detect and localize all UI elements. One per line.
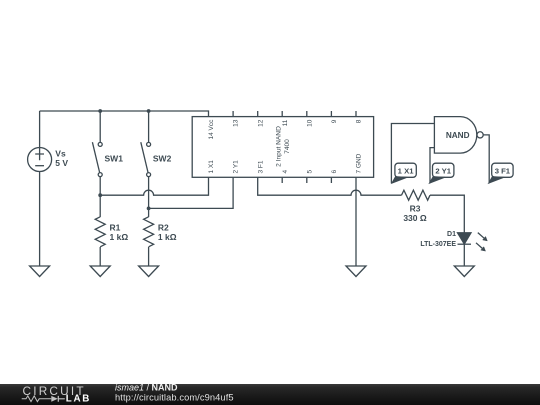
- svg-text:3 F1: 3 F1: [257, 160, 264, 173]
- svg-text:3 F1: 3 F1: [495, 166, 511, 175]
- svg-text:1 X1: 1 X1: [208, 160, 215, 174]
- switch SW2: [141, 111, 151, 208]
- wire IC pin 3 to R3 (hop over pin 7 wire): [258, 177, 402, 195]
- svg-text:ismae1 / NAND: ismae1 / NAND: [115, 383, 178, 393]
- wire NAND input B to flag 2 Y1: [430, 148, 434, 184]
- wire R3 to LED: [430, 195, 464, 233]
- svg-text:7 GND: 7 GND: [356, 153, 363, 173]
- LED D1: [458, 233, 472, 266]
- IC pin labels: [208, 119, 363, 174]
- wire SW2 to IC pin 2: [149, 177, 234, 208]
- svg-text:R3: R3: [410, 204, 421, 214]
- wire top rail: [40, 111, 209, 117]
- label R2 1 kOhm: [158, 223, 177, 242]
- svg-text:5: 5: [306, 170, 313, 174]
- IC U1 7400 body: [192, 117, 373, 178]
- ground (below pin 7): [346, 266, 366, 277]
- svg-text:9: 9: [331, 119, 338, 123]
- svg-text:SW1: SW1: [105, 154, 124, 164]
- CircuitLab logo: diode symbol: [51, 396, 58, 402]
- switch SW1: [92, 111, 102, 195]
- svg-text:D1: D1: [447, 231, 456, 238]
- label D1 LTL-307EE: [420, 231, 456, 248]
- svg-text:1 X1: 1 X1: [398, 166, 415, 175]
- resistor R3: [402, 190, 431, 200]
- CircuitLab logo: resistor zigzag: [22, 396, 52, 402]
- svg-text:SW2: SW2: [153, 154, 172, 164]
- node junction SW2 top: [147, 109, 151, 113]
- wire NAND output to flag 3 F1: [483, 135, 489, 183]
- ground (below LED): [454, 266, 474, 277]
- NAND output bubble: [477, 132, 483, 138]
- footer bar: [0, 384, 540, 405]
- label R1 1 kOhm: [110, 223, 129, 242]
- svg-text:330 Ω: 330 Ω: [403, 213, 427, 223]
- svg-text:NAND: NAND: [446, 131, 470, 140]
- voltage source Vs: [28, 148, 52, 172]
- ground (below Vs): [30, 266, 50, 277]
- svg-text:1 kΩ: 1 kΩ: [110, 232, 129, 242]
- svg-text:6: 6: [331, 170, 338, 174]
- svg-text:14 Vcc: 14 Vcc: [208, 119, 215, 140]
- flag 1 X1: [392, 163, 417, 183]
- svg-text:12: 12: [257, 119, 264, 127]
- pin ticks bottom (4,5,6): [282, 177, 331, 183]
- svg-text:4: 4: [282, 170, 289, 174]
- wire Vs top to rail: [39, 111, 41, 148]
- svg-text:2 Y1: 2 Y1: [233, 160, 240, 174]
- ground (below R2): [139, 266, 159, 277]
- LED light arrows: [476, 233, 487, 252]
- svg-text:2 Y1: 2 Y1: [435, 166, 451, 175]
- svg-text:LTL-307EE: LTL-307EE: [420, 241, 456, 248]
- svg-text:11: 11: [282, 119, 289, 126]
- svg-text:5 V: 5 V: [55, 158, 68, 168]
- svg-text:13: 13: [233, 119, 240, 127]
- svg-text:http://circuitlab.com/c9n4uf5: http://circuitlab.com/c9n4uf5: [115, 393, 234, 403]
- wire NAND input A to flag 1 X1: [391, 124, 434, 184]
- svg-text:1 kΩ: 1 kΩ: [158, 232, 177, 242]
- resistor R1: [95, 195, 105, 266]
- node junction SW1 top: [98, 109, 102, 113]
- label Vs 5 V: [55, 149, 68, 169]
- NAND gate U2: [434, 117, 476, 154]
- svg-text:LAB: LAB: [66, 394, 91, 405]
- svg-text:10: 10: [306, 119, 313, 127]
- flag 3 F1: [488, 163, 513, 183]
- svg-text:8: 8: [356, 119, 363, 123]
- svg-text:7400: 7400: [284, 139, 291, 154]
- resistor R2: [144, 208, 154, 266]
- node junction SW1-R1: [98, 193, 102, 197]
- node junction SW2-R2: [147, 207, 151, 211]
- pin ticks top (13,12,11,10,9,8): [233, 111, 356, 117]
- wire IC pin 7 to ground: [355, 177, 357, 266]
- flag 2 Y1: [429, 163, 454, 183]
- ground (below R1): [90, 266, 110, 277]
- svg-text:2 Input NAND: 2 Input NAND: [276, 126, 283, 167]
- wire Vs bottom to ground: [39, 172, 41, 267]
- svg-text:Vs: Vs: [55, 149, 66, 159]
- label R3 330 Ohm: [403, 204, 427, 224]
- wire SW1 to IC pin 1 (hop over SW2 wire): [100, 177, 208, 195]
